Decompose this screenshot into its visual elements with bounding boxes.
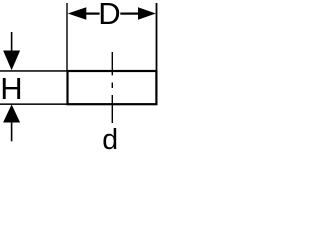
centerline upper segment [112, 52, 113, 75]
arrow up (H) [3, 104, 20, 122]
extension line top (for H) [0, 70, 67, 72]
arrow down (H) [3, 51, 20, 71]
extension line left (for D) [66, 3, 67, 70]
centerline lower segment [112, 95, 113, 123]
arrow left (D) [68, 7, 87, 20]
svg-text:d: d [102, 124, 118, 156]
dimension line D right segment [120, 13, 138, 15]
svg-text:D: D [98, 0, 120, 31]
arrow right (D) [138, 7, 156, 20]
svg-text:H: H [0, 71, 22, 106]
dimension line D left segment [85, 13, 100, 15]
rectangle component body [68, 71, 157, 104]
extension line bottom (for H) [0, 103, 67, 105]
H dimension upper lead line [11, 32, 13, 51]
H dimension lower lead line [11, 123, 13, 142]
extension line right (for D) [156, 3, 158, 70]
centerline middle dash [112, 83, 113, 89]
